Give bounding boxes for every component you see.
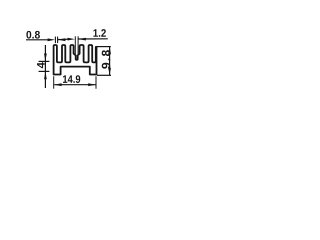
label 1.2 [93, 29, 105, 37]
right dimension (9.8) [97, 47, 111, 76]
1.2 extension lines into slot [75, 36, 78, 54]
left dimension (4) [39, 45, 50, 88]
label 4 [37, 62, 45, 68]
label 14.9 [63, 75, 80, 83]
top dimension line [26, 39, 108, 40]
0.8 extension ticks [55, 37, 57, 44]
label 9.8 [102, 50, 111, 68]
bottom dimension (14.9) [54, 76, 96, 89]
arrows top [48, 38, 86, 42]
heatsink profile outline [54, 45, 97, 75]
label 0.8 [26, 31, 40, 39]
